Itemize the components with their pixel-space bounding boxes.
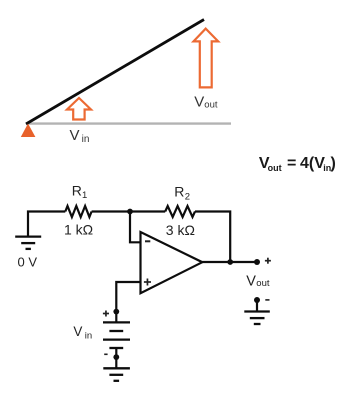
minus sign at return terminal xyxy=(265,299,269,301)
svg-text:R: R xyxy=(72,183,82,199)
svg-text:V: V xyxy=(194,94,204,111)
ground (0 V reference) xyxy=(15,237,41,249)
svg-text:out: out xyxy=(256,278,270,289)
R2 label xyxy=(174,183,190,202)
svg-text:V: V xyxy=(246,273,256,289)
svg-text:in: in xyxy=(85,331,92,342)
wire opamp noninverting-to-battery xyxy=(116,282,140,312)
svg-text:V: V xyxy=(70,127,80,144)
Vin arrow (small orange hollow arrow) xyxy=(67,98,91,120)
op-amp plus sign (non-inverting input) xyxy=(144,279,151,286)
resistor R2 xyxy=(165,206,195,217)
node battery plus terminal dot xyxy=(113,309,119,315)
svg-text:out: out xyxy=(204,100,218,111)
battery V1 (Vin source) xyxy=(103,322,130,348)
Vin label (lever) xyxy=(70,127,90,145)
svg-text:2: 2 xyxy=(185,192,190,203)
lever baseline (gray ground line) xyxy=(28,122,231,124)
resistor R1 xyxy=(65,206,91,217)
Vout label (circuit) xyxy=(246,273,270,289)
node feedback junction dot xyxy=(227,259,233,265)
wire 0V-to-R1 xyxy=(28,212,65,237)
op-amp minus sign (inverting input) xyxy=(145,240,150,242)
node battery minus junction dot xyxy=(113,354,119,360)
node junction dot (inverting input node) xyxy=(127,209,133,215)
wire opamp output xyxy=(202,261,257,263)
wire node-to-R2 xyxy=(130,210,165,212)
svg-text:V: V xyxy=(73,324,82,339)
ground (output return) xyxy=(244,312,269,325)
R1 label xyxy=(72,183,87,202)
wire R2-to-output (feedback down leg) xyxy=(195,212,230,263)
Vout arrow (large orange hollow arrow) xyxy=(194,29,219,88)
svg-text:4(V: 4(V xyxy=(300,155,325,172)
plus sign at battery xyxy=(103,311,109,317)
wire node-to-opamp inverting input xyxy=(130,212,141,243)
svg-text:0 V: 0 V xyxy=(18,254,38,269)
wire battery bottom lead xyxy=(115,348,117,368)
plus sign at output terminal xyxy=(265,258,271,264)
Vout label (lever) xyxy=(194,94,218,111)
wire R1-to-node xyxy=(92,210,130,212)
svg-text:R: R xyxy=(174,183,184,199)
op-amp U1 xyxy=(141,232,203,293)
svg-text:): ) xyxy=(331,155,336,172)
ground (battery return) xyxy=(103,368,130,381)
wire battery top lead xyxy=(115,312,117,323)
svg-text:3 kΩ: 3 kΩ xyxy=(166,222,195,238)
svg-text:1 kΩ: 1 kΩ xyxy=(64,221,93,237)
minus sign at battery xyxy=(104,353,107,355)
output terminal dot (+) xyxy=(254,259,260,265)
svg-text:out: out xyxy=(268,163,282,173)
wire return-to-ground xyxy=(256,300,258,312)
fulcrum triangle xyxy=(21,124,36,138)
svg-text:in: in xyxy=(82,134,90,145)
equation Vout = 4(Vin) xyxy=(259,155,336,173)
lever arm (black diagonal beam) xyxy=(26,20,204,125)
Vin label (circuit) xyxy=(73,324,92,342)
svg-text:=: = xyxy=(287,155,296,172)
svg-text:1: 1 xyxy=(82,190,87,201)
minus terminal dot (Vout return) xyxy=(254,297,260,303)
